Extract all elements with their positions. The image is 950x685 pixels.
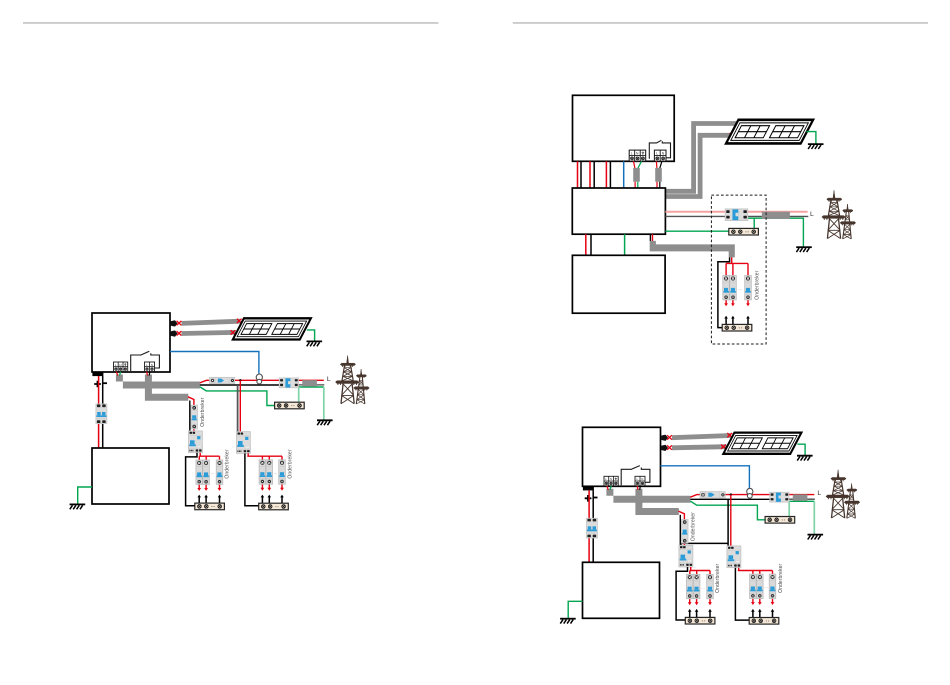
battery B1 [583,562,660,618]
battery feed wires (red/black/green) [585,234,587,255]
backup neutral busbar [722,324,752,331]
battery ground [560,619,576,624]
svg-text:...: ... [211,470,215,475]
internal bypass switch S1 [131,351,160,371]
PE busbar uplink (light green) [788,501,790,516]
load arrows group 1 (red) [197,485,201,491]
neutral busbar group 2 [749,618,779,625]
PV string cable 2 [666,135,733,196]
PV panel ground [307,341,323,346]
battery terminal stub [92,372,103,376]
battery breaker QB [586,518,597,538]
utility towers [826,470,860,518]
neutral busbar group 1 [195,503,225,510]
gateway box U3 [572,188,665,234]
load N branch wire (gray) [237,385,239,432]
junction node [239,379,241,381]
EPS terminal wires (red/black) [147,372,148,376]
CT sensor [256,374,262,384]
EPS terminal block (L N) [654,150,666,161]
return arrows group 1 (black) [197,495,201,504]
battery B2 [572,255,665,313]
battery wire BAT- (black) [102,376,104,448]
grid PE wire (green) [690,501,765,520]
PV cable 1 connector wires [177,321,182,325]
battery polarity labels + - [585,495,592,502]
svg-text:Onderbreker: Onderbreker [287,449,293,478]
PV string cable 1 [672,436,731,438]
grid L wire (red) [200,380,324,383]
svg-text:Onderbreker: Onderbreker [778,563,784,592]
PV string cable 2 [672,447,726,448]
load L branch wire (red) [730,495,732,546]
inverter U1 (1 (basic system)) [92,313,170,372]
grid terminal wires (red/green) [607,486,609,490]
AC PE busbar [765,517,795,524]
svg-text:...: ... [764,584,768,589]
CT communication wire (blue) [170,352,259,374]
PV- MC4 connector [171,330,178,336]
EPS terminal wires (red/black) [637,486,638,490]
inverter U2 [573,95,675,161]
EPS N wire (black) [189,401,191,432]
grid terminal wires (red/green) [116,372,118,376]
battery wire BAT+ (red) [588,490,590,562]
battery ground [70,504,86,509]
load arrows group 1 (red) [688,599,692,605]
AC system ground [317,420,333,425]
communication wire (blue) [623,161,625,188]
AC system ground [796,247,812,252]
PE drop to ground (light green) [323,387,325,420]
grid AC cable (thick) [116,375,200,389]
backup N wire (black) [718,257,730,327]
battery wire BAT- (black) [592,490,594,562]
CT sensor [747,488,753,498]
battery breaker QB [96,404,107,424]
EPS cable stub [655,161,658,168]
grid terminal block (L N PE) [629,150,645,161]
grid breaker Q1 (1P) [700,492,725,498]
RCD breaker Q4 [679,545,693,567]
PV string cable 1 [666,124,740,192]
PV panel array [233,318,311,339]
neutral busbar group 2 [259,503,289,510]
inverter U1 (3 (split backup)) [583,427,661,486]
PE busbar [729,228,759,235]
PE busbar uplink (light green) [298,387,300,402]
load breakers group 2 (MCBs) [259,460,266,484]
grid service cable (thick) [793,494,808,500]
load arrows group 2 (red) [261,485,265,491]
PV panel earth wire [797,444,805,455]
PV string cable 1 [182,321,241,323]
RCD breaker Q4 [188,431,202,453]
grid PE wire (green) [200,387,275,406]
svg-text:L: L [817,490,821,497]
EPS L wire (red) [678,511,684,546]
PV- MC4 connector [661,445,668,451]
RCD2 output L bus (red) [247,453,282,462]
gateway PE wire (green) [665,230,729,232]
svg-text:...: ... [701,584,705,589]
svg-text:...: ... [274,470,278,475]
grid service cable (thick) [302,380,317,386]
load breakers group 1 (MCBs) [196,460,203,484]
PV panel ground [797,456,813,461]
EPS AC cable (thick) [145,375,188,401]
load arrows group 2 (red) [751,599,755,605]
EPS N wire (black) [679,515,681,546]
inverter-gateway wires (red/black pairs) [578,161,607,188]
PV+ MC4 connector [661,435,668,441]
PV string cable 2 [182,332,236,333]
grid N wire (gray) [665,215,808,217]
EPS AC cable (thick) [635,489,678,515]
RCD breaker Q5 [727,546,741,568]
battery wire BAT+ (red) [98,376,100,448]
internal bypass switch S1 [621,466,650,486]
grid breaker Q1 (1P) [210,377,235,383]
EPS feed wires (black/red) [649,234,651,241]
PE wire after breaker (green) [748,218,804,246]
svg-text:Onderbreker: Onderbreker [754,270,760,299]
grid main breaker Q2 (2P) [770,492,789,502]
EPS terminal block (L N) inside inverter [635,476,645,486]
utility towers [822,190,856,238]
grid AC cable (thick) [606,489,690,503]
AC system ground [808,535,824,540]
grid N wire (black) [200,384,280,386]
RCD breaker Q5 [236,432,250,454]
battery earth wire [568,601,582,618]
grid L wire (red) [690,495,814,498]
right page header rule [513,22,928,23]
RCD1 output N (black) [186,453,197,506]
battery earth wire [78,487,92,504]
return arrows group 2 (black) [261,495,265,504]
svg-text:Onderbreker: Onderbreker [225,449,231,478]
load L branch wire (red) [239,380,241,431]
svg-text:Onderbreker: Onderbreker [690,512,696,541]
return arrows group 2 (black) [751,609,755,618]
grid cable stub [634,161,635,168]
battery terminal stub [583,486,594,490]
PV panel earth wire [307,330,315,341]
RCD2 output L bus (red) [738,568,773,577]
EPS breaker Q3 (1P) [191,405,198,429]
backup L bus (red) [726,257,748,278]
PV cable 1 connector wires [667,435,672,439]
grid terminal block (L N PE) inside inverter [604,476,618,486]
svg-text:L: L [327,376,331,383]
RCD1 output N (black) [676,567,687,620]
battery polarity labels + - [94,381,101,388]
svg-text:Onderbreker: Onderbreker [715,563,721,592]
PV+ MC4 connector [171,320,178,326]
PV cable 2 connector wires [177,331,182,335]
EPS breaker Q3 (1P) [681,520,688,544]
RCD1 output L bus (red) [690,567,710,577]
load breakers group 1 (MCBs) [686,574,693,598]
grid service cable (thick) [762,212,790,219]
grid L wire (pink) [665,211,807,213]
PV panel array [726,120,813,144]
utility towers [335,356,369,405]
PV cable 2 connector wires [667,445,672,449]
PV panel array [723,433,801,454]
PV cable connector wires [737,121,742,125]
grid N wire (black) [690,498,770,500]
svg-text:L: L [810,211,814,218]
grid terminal block (L N PE) inside inverter [114,362,128,372]
RCD2 output N (black) [735,568,749,620]
PV panel earth wire [807,132,816,144]
EPS L wire (red) [188,397,194,432]
grid main breaker Q2 (2P) [279,378,298,388]
RCD1 output L bus (red) [199,453,219,463]
AC PE busbar [275,402,305,409]
internal bypass switch S2 [649,140,670,158]
return arrows (black) [724,316,728,325]
battery B1 [92,448,169,504]
junction node [730,493,732,495]
backup load breakers (MCBs) [723,276,730,300]
EPS terminal block (L N) inside inverter [145,362,155,372]
PE drop to ground (light green) [813,501,815,534]
svg-text:...: ... [738,286,742,291]
neutral busbar group 1 [685,617,715,624]
return arrows group 1 (black) [688,609,692,618]
PV panel ground [808,144,824,149]
EPS cable (thick) [650,241,735,258]
load N branch wire (black) [681,499,728,546]
dashed backup enclosure [711,195,766,344]
load arrows (red) [724,300,728,306]
RCD2 output N (black) [245,453,259,505]
grid main breaker Q6 (2P) [725,209,748,221]
CT communication wire (blue) [661,466,750,488]
svg-text:Onderbreker: Onderbreker [200,397,206,426]
left page header rule [23,22,438,23]
load breakers group 2 (MCBs) [750,574,757,598]
